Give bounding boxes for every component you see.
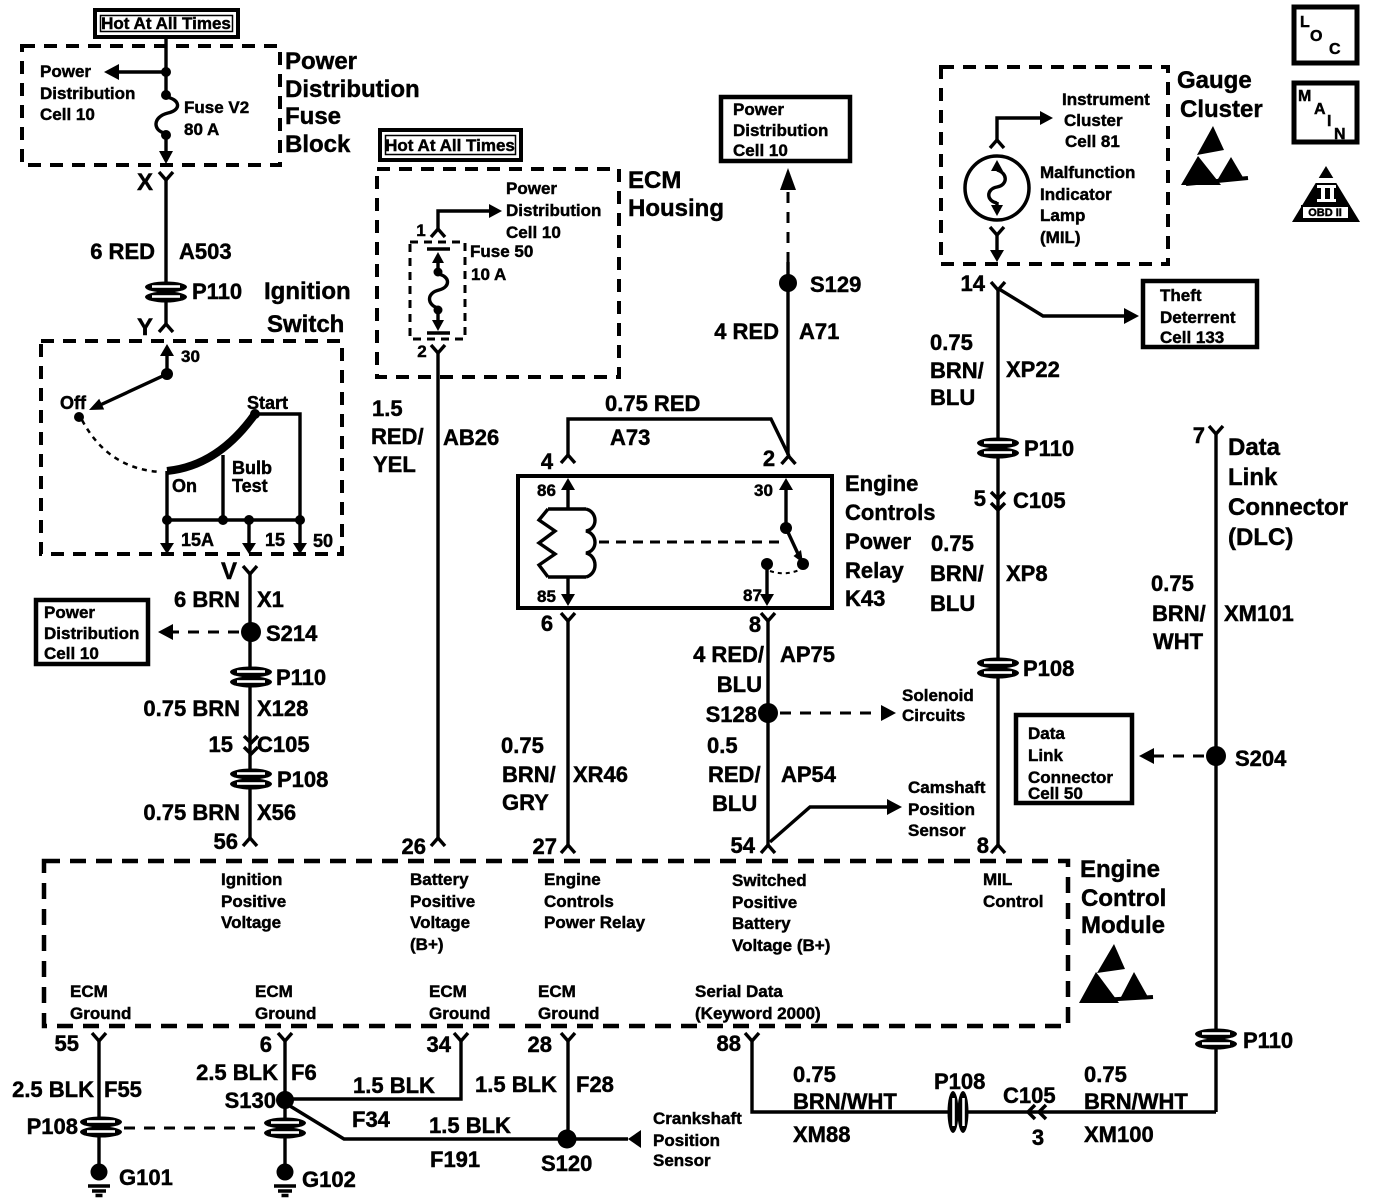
svg-text:1.5 BLK: 1.5 BLK [475,1072,557,1097]
svg-text:S120: S120 [541,1151,592,1176]
svg-text:C: C [1329,41,1341,58]
svg-text:Camshaft: Camshaft [908,778,986,797]
svg-text:K43: K43 [845,586,885,611]
svg-text:5: 5 [974,486,986,511]
svg-text:Fuse 50: Fuse 50 [470,242,533,261]
svg-text:Connector: Connector [1228,494,1348,521]
svg-text:ECM: ECM [429,982,467,1001]
svg-text:(DLC): (DLC) [1228,524,1293,551]
svg-text:Positive: Positive [732,893,797,912]
svg-text:6: 6 [260,1032,272,1057]
svg-text:Battery: Battery [732,914,791,933]
svg-text:Controls: Controls [544,892,614,911]
svg-text:Crankshaft: Crankshaft [653,1109,742,1128]
svg-text:Distribution: Distribution [44,624,139,643]
svg-text:RED/: RED/ [708,762,761,787]
svg-text:6 RED: 6 RED [90,239,155,264]
svg-text:V: V [221,558,237,585]
svg-text:0.75 BRN: 0.75 BRN [143,800,240,825]
svg-text:G101: G101 [119,1165,173,1190]
svg-text:N: N [1334,126,1346,143]
svg-text:Cell 10: Cell 10 [44,644,99,663]
svg-text:Ignition: Ignition [221,870,282,889]
svg-text:14: 14 [961,271,986,296]
svg-text:Hot At All Times: Hot At All Times [385,136,515,155]
svg-text:1.5: 1.5 [372,396,403,421]
svg-text:Engine: Engine [544,870,601,889]
svg-text:P108: P108 [934,1069,985,1094]
svg-text:I: I [1327,113,1331,130]
svg-text:30: 30 [181,347,200,366]
svg-text:30: 30 [754,481,773,500]
svg-text:X1: X1 [257,587,284,612]
svg-text:Power: Power [44,603,95,622]
svg-text:MIL: MIL [983,870,1012,889]
svg-text:Lamp: Lamp [1040,206,1085,225]
svg-text:26: 26 [402,834,426,859]
svg-text:A503: A503 [179,239,232,264]
svg-text:(B+): (B+) [410,935,444,954]
svg-text:Cell 133: Cell 133 [1160,328,1224,347]
svg-text:Solenoid: Solenoid [902,686,974,705]
svg-text:P110: P110 [276,665,326,690]
svg-text:Position: Position [653,1131,720,1150]
svg-text:XR46: XR46 [573,762,628,787]
svg-text:BRN/WHT: BRN/WHT [793,1089,897,1114]
svg-text:OBD II: OBD II [1308,207,1342,219]
svg-text:Voltage: Voltage [410,913,470,932]
svg-text:S129: S129 [810,272,861,297]
svg-text:(MIL): (MIL) [1040,228,1081,247]
svg-text:1.5 BLK: 1.5 BLK [353,1073,435,1098]
svg-text:Link: Link [1228,464,1278,491]
svg-text:Engine: Engine [1080,856,1160,883]
svg-text:3: 3 [1032,1125,1044,1150]
svg-text:On: On [172,476,197,496]
svg-text:Fuse: Fuse [285,103,341,130]
svg-text:Position: Position [908,800,975,819]
svg-text:Control: Control [983,892,1043,911]
svg-text:BRN/: BRN/ [502,762,556,787]
svg-text:86: 86 [537,481,556,500]
svg-text:87: 87 [743,586,762,605]
svg-text:F191: F191 [430,1147,480,1172]
svg-text:Relay: Relay [845,558,904,583]
svg-text:F34: F34 [352,1107,391,1132]
svg-text:Cell 81: Cell 81 [1065,132,1120,151]
svg-text:BLU: BLU [930,591,975,616]
svg-text:Control: Control [1081,885,1166,912]
svg-text:Ground: Ground [538,1004,599,1023]
svg-text:GRY: GRY [502,790,549,815]
svg-text:7: 7 [1193,423,1205,448]
svg-text:0.75 RED: 0.75 RED [605,391,700,416]
svg-text:Ignition: Ignition [264,278,351,305]
svg-text:80 A: 80 A [184,120,219,139]
svg-text:XM101: XM101 [1224,601,1294,626]
svg-text:Distribution: Distribution [506,201,601,220]
svg-text:ECM: ECM [538,982,576,1001]
svg-text:0.75: 0.75 [501,733,544,758]
svg-text:Power: Power [845,529,911,554]
svg-text:1: 1 [416,221,425,240]
svg-text:Ground: Ground [255,1004,316,1023]
svg-text:Bulb: Bulb [232,458,272,478]
svg-text:15: 15 [265,530,285,550]
svg-text:Distribution: Distribution [40,84,135,103]
svg-text:RED/: RED/ [371,424,424,449]
svg-text:Power: Power [40,62,91,81]
svg-text:56: 56 [214,829,238,854]
svg-text:Deterrent: Deterrent [1160,308,1236,327]
svg-text:15A: 15A [181,530,214,550]
svg-text:P110: P110 [1024,436,1074,461]
svg-text:27: 27 [533,834,557,859]
svg-text:Serial Data: Serial Data [695,982,783,1001]
svg-text:AB26: AB26 [443,425,499,450]
svg-text:6 BRN: 6 BRN [174,587,240,612]
svg-text:Ground: Ground [70,1004,131,1023]
svg-text:Power: Power [733,100,784,119]
svg-text:XP22: XP22 [1006,357,1060,382]
svg-text:WHT: WHT [1153,629,1204,654]
svg-text:0.5: 0.5 [707,733,738,758]
svg-text:6: 6 [541,611,553,636]
svg-text:4: 4 [541,449,554,474]
svg-text:54: 54 [731,833,756,858]
svg-text:(Keyword 2000): (Keyword 2000) [695,1004,821,1023]
svg-text:S128: S128 [706,702,757,727]
svg-text:Data: Data [1028,724,1065,743]
svg-text:BLU: BLU [717,672,762,697]
svg-text:O: O [1310,28,1322,45]
svg-text:0.75 BRN: 0.75 BRN [143,696,240,721]
svg-text:X56: X56 [257,800,296,825]
svg-text:S204: S204 [1235,746,1287,771]
svg-text:4 RED: 4 RED [714,319,779,344]
svg-text:S130: S130 [225,1088,276,1113]
svg-text:P110: P110 [192,279,242,304]
svg-text:Block: Block [285,131,351,158]
svg-text:P108: P108 [1023,656,1074,681]
svg-text:Cell 10: Cell 10 [506,223,561,242]
svg-text:P110: P110 [1243,1028,1293,1053]
svg-text:Theft: Theft [1160,286,1202,305]
svg-text:YEL: YEL [373,452,416,477]
svg-text:Data: Data [1228,434,1281,461]
svg-text:XM88: XM88 [793,1122,850,1147]
svg-text:0.75: 0.75 [931,531,974,556]
svg-text:15: 15 [209,732,233,757]
svg-text:Power: Power [285,48,357,75]
svg-text:Sensor: Sensor [908,821,966,840]
svg-text:Power Relay: Power Relay [544,913,646,932]
svg-text:Module: Module [1081,912,1165,939]
svg-text:Indicator: Indicator [1040,185,1112,204]
svg-text:Switch: Switch [267,311,344,338]
svg-text:Link: Link [1028,746,1063,765]
svg-text:2.5 BLK: 2.5 BLK [12,1077,94,1102]
svg-text:Switched: Switched [732,871,807,890]
svg-text:P108: P108 [27,1114,78,1139]
svg-text:A71: A71 [799,319,839,344]
svg-text:A: A [1314,101,1326,118]
svg-text:Malfunction: Malfunction [1040,163,1135,182]
svg-text:G102: G102 [302,1167,356,1192]
svg-text:C105: C105 [1013,488,1066,513]
svg-text:F28: F28 [576,1072,614,1097]
svg-text:Power: Power [506,179,557,198]
svg-text:Positive: Positive [221,892,286,911]
svg-text:Battery: Battery [410,870,469,889]
svg-text:85: 85 [537,587,556,606]
svg-text:50: 50 [313,531,333,551]
svg-text:Circuits: Circuits [902,706,965,725]
svg-text:10 A: 10 A [471,265,506,284]
svg-text:P108: P108 [277,767,328,792]
svg-text:8: 8 [977,833,989,858]
svg-text:Distribution: Distribution [733,121,828,140]
svg-text:28: 28 [528,1032,552,1057]
svg-text:0.75: 0.75 [930,330,973,355]
svg-text:Instrument: Instrument [1062,90,1150,109]
svg-text:Fuse V2: Fuse V2 [184,98,249,117]
svg-text:2.5 BLK: 2.5 BLK [196,1060,278,1085]
svg-text:BRN/WHT: BRN/WHT [1084,1089,1188,1114]
svg-text:ECM: ECM [628,167,681,194]
svg-text:Y: Y [137,314,153,341]
svg-text:XM100: XM100 [1084,1122,1154,1147]
svg-text:Controls: Controls [845,500,935,525]
svg-text:C105: C105 [1003,1083,1056,1108]
svg-text:F6: F6 [291,1060,317,1085]
svg-text:0.75: 0.75 [793,1062,836,1087]
svg-text:34: 34 [427,1032,452,1057]
svg-text:Engine: Engine [845,471,918,496]
svg-text:55: 55 [55,1031,79,1056]
svg-text:Cell 10: Cell 10 [40,105,95,124]
svg-text:XP8: XP8 [1006,561,1048,586]
svg-text:X: X [137,169,153,196]
svg-text:0.75: 0.75 [1151,571,1194,596]
svg-text:BRN/: BRN/ [930,358,984,383]
svg-text:2: 2 [763,446,775,471]
svg-text:Housing: Housing [628,195,724,222]
svg-text:0.75: 0.75 [1084,1062,1127,1087]
svg-text:Cluster: Cluster [1064,111,1123,130]
svg-text:BLU: BLU [712,791,757,816]
svg-text:A73: A73 [610,425,650,450]
svg-text:Cell 10: Cell 10 [733,141,788,160]
svg-text:Test: Test [232,476,268,496]
svg-text:M: M [1298,88,1311,105]
svg-text:Cell 50: Cell 50 [1028,784,1083,803]
svg-text:C105: C105 [257,732,310,757]
svg-text:ECM: ECM [255,982,293,1001]
svg-text:Sensor: Sensor [653,1151,711,1170]
svg-text:BRN/: BRN/ [930,561,984,586]
svg-text:BLU: BLU [930,385,975,410]
svg-text:Gauge: Gauge [1177,67,1252,94]
svg-text:88: 88 [717,1031,741,1056]
svg-text:4 RED/: 4 RED/ [693,642,764,667]
svg-text:F55: F55 [104,1077,142,1102]
svg-text:Distribution: Distribution [285,76,420,103]
svg-text:ECM: ECM [70,982,108,1001]
svg-text:Off: Off [60,393,87,413]
svg-text:S214: S214 [266,621,318,646]
svg-text:AP54: AP54 [781,762,837,787]
svg-text:Ground: Ground [429,1004,490,1023]
svg-text:Voltage (B+): Voltage (B+) [732,936,830,955]
svg-text:Cluster: Cluster [1180,96,1263,123]
svg-text:Voltage: Voltage [221,913,281,932]
svg-text:Positive: Positive [410,892,475,911]
svg-text:Hot At All Times: Hot At All Times [101,14,231,33]
svg-text:L: L [1300,14,1310,31]
svg-text:X128: X128 [257,696,308,721]
svg-text:AP75: AP75 [780,642,835,667]
svg-text:2: 2 [417,342,426,361]
svg-text:1.5 BLK: 1.5 BLK [429,1113,511,1138]
svg-text:BRN/: BRN/ [1152,601,1206,626]
svg-text:8: 8 [749,612,761,637]
